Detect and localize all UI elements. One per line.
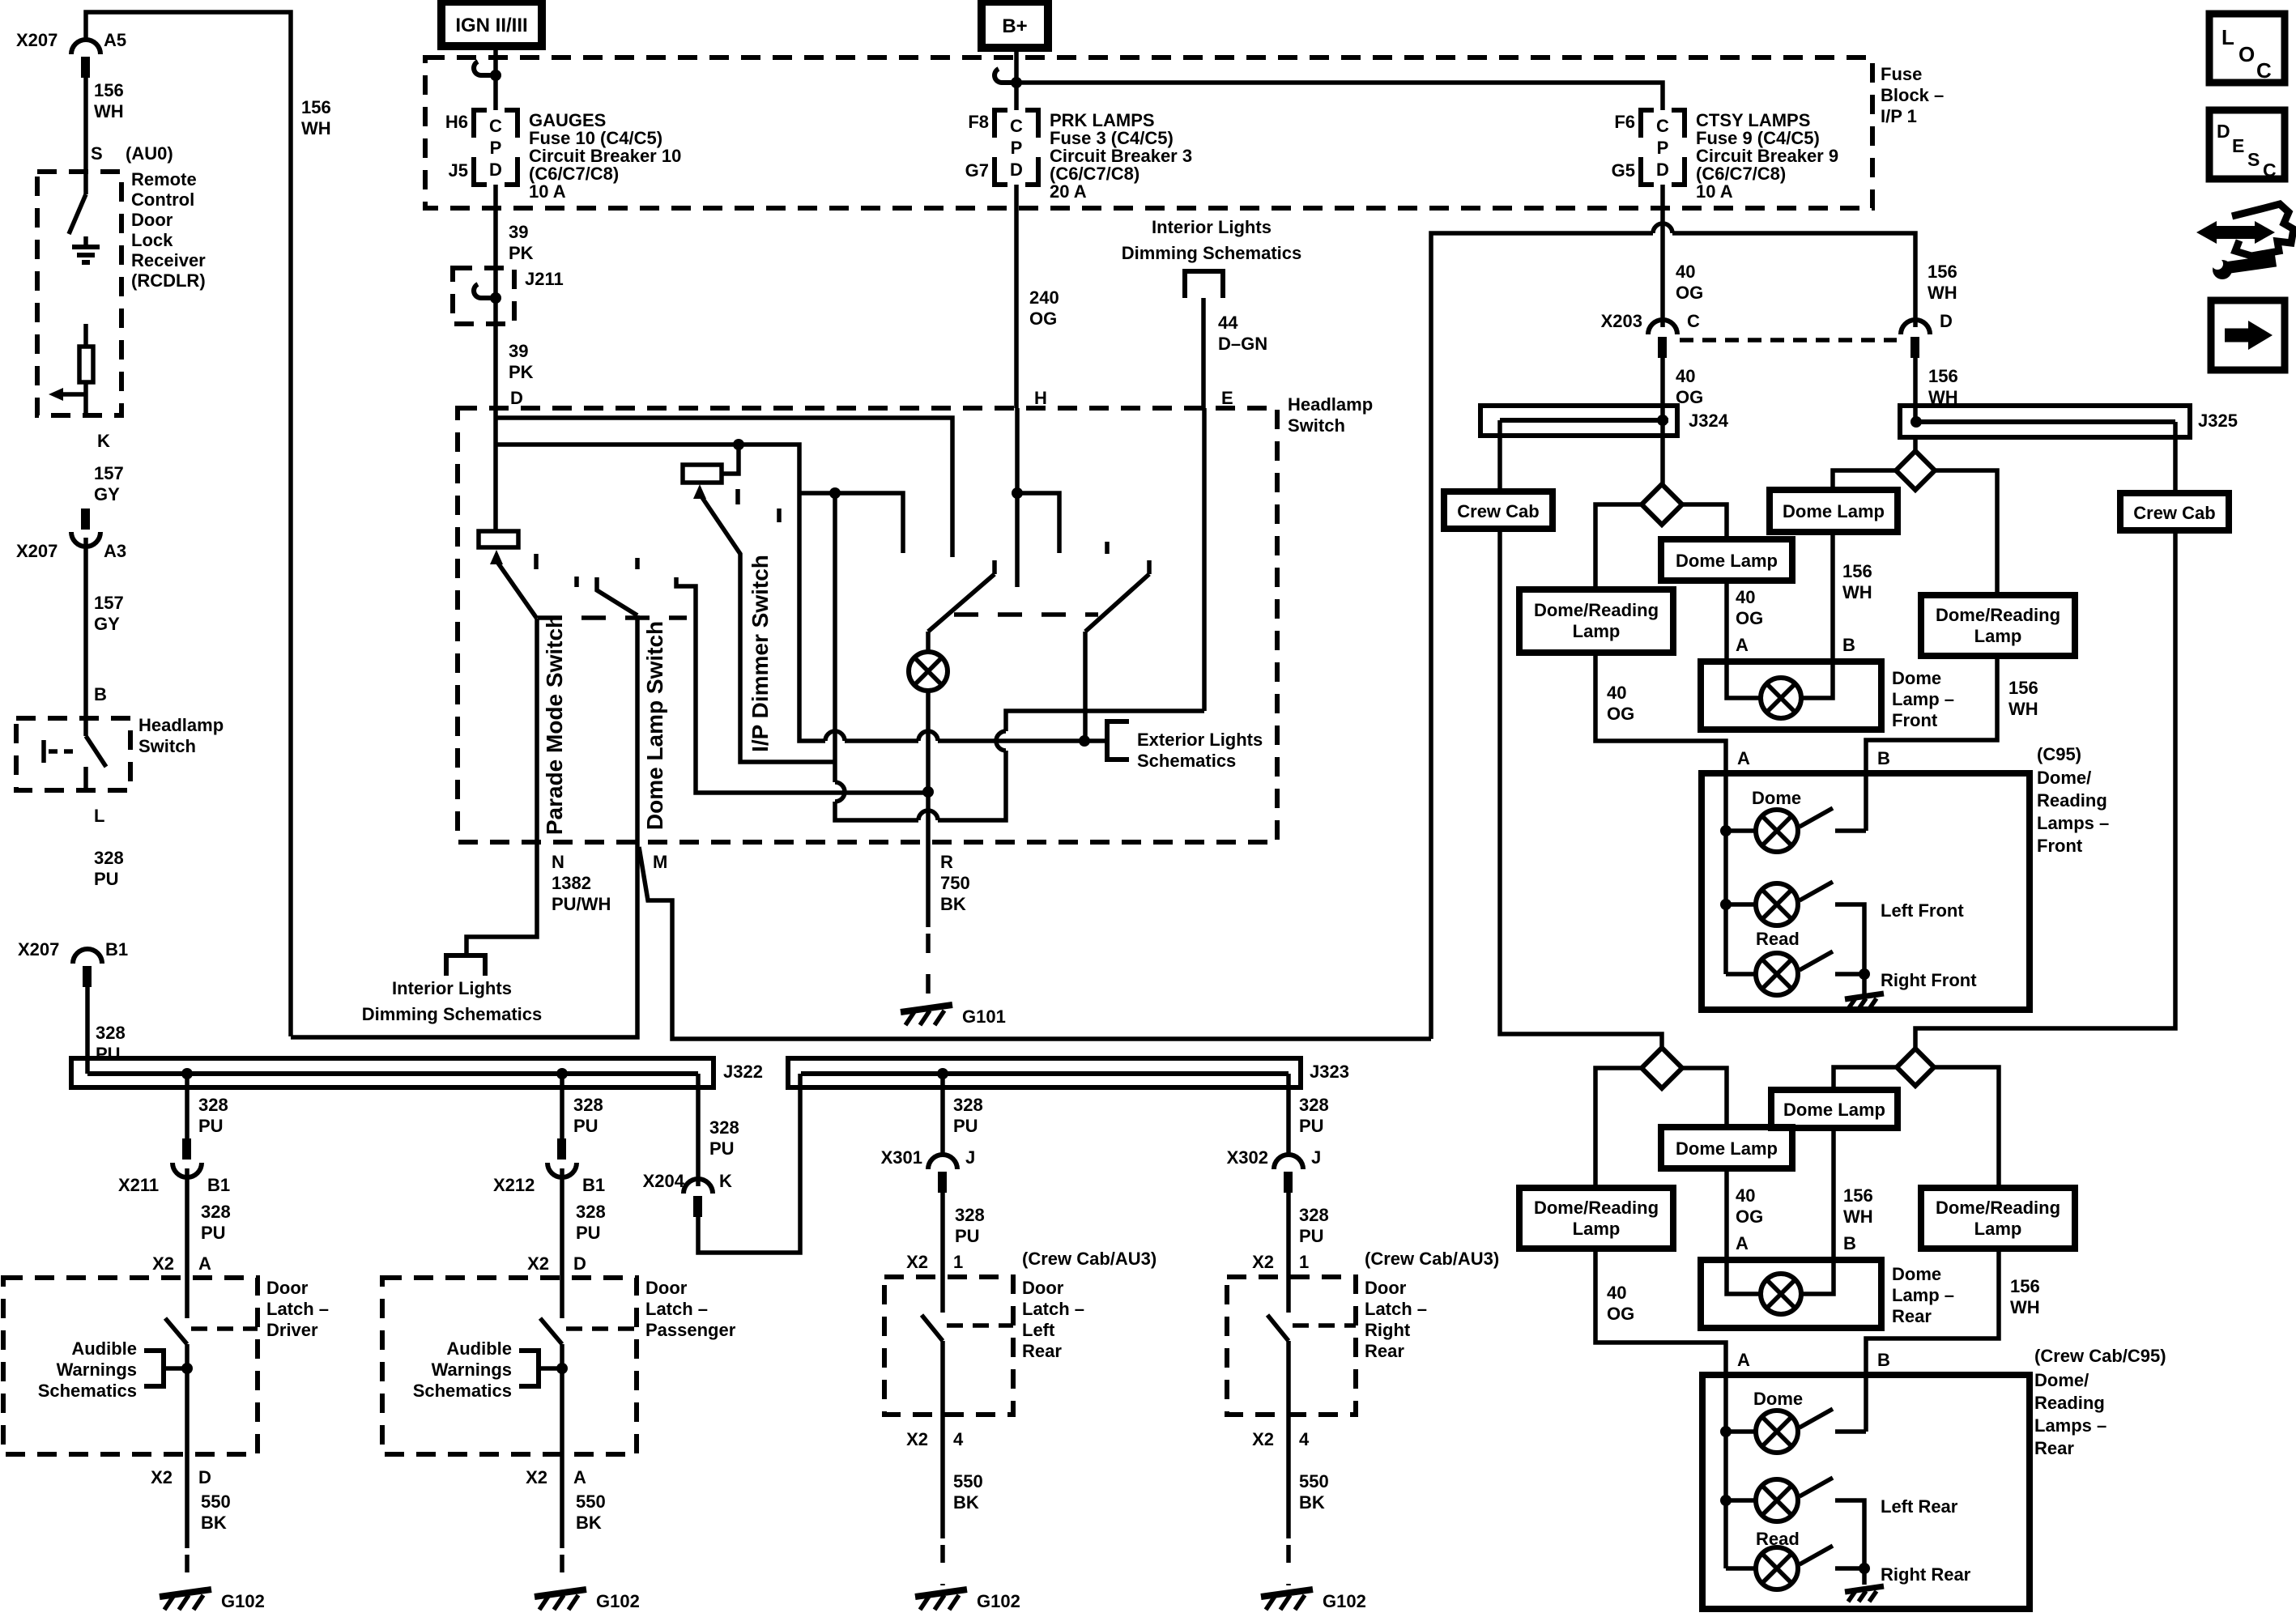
svg-text:Latch –: Latch – [266,1299,329,1319]
svg-text:B: B [1877,1350,1890,1370]
svg-text:PU: PU [198,1116,224,1136]
svg-text:156: 156 [1928,262,1957,282]
svg-text:C: C [489,116,502,136]
switch actuator E mark [41,740,46,763]
svg-text:G101: G101 [962,1006,1006,1027]
svg-text:Dome Lamp: Dome Lamp [1783,1100,1885,1120]
svg-text:E: E [2232,135,2244,156]
svg-text:J323: J323 [1310,1062,1349,1082]
panel lamp symbol [926,632,931,652]
svg-text:J322: J322 [723,1062,763,1082]
ground G102 driver [160,1589,211,1597]
svg-text:X301: X301 [881,1147,922,1168]
svg-text:Lamps –: Lamps – [2034,1415,2106,1436]
wire common bus to exterior lights [799,739,1107,741]
svg-text:550: 550 [201,1491,231,1512]
dome lamp front center box [1661,539,1792,581]
ground G101 [901,1005,952,1012]
svg-text:Warnings: Warnings [432,1360,512,1380]
svg-text:Door: Door [1022,1278,1064,1298]
svg-text:Lamps –: Lamps – [2037,813,2109,833]
svg-text:C: C [1010,116,1023,136]
icon LOC box [2209,14,2285,83]
dome/reading lamps rear module box [1702,1375,2030,1609]
svg-text:Fuse: Fuse [1881,64,1922,84]
wire R to ground [926,842,931,927]
svg-text:Front: Front [2037,836,2083,856]
svg-text:PU: PU [953,1116,978,1136]
svg-text:BK: BK [1299,1492,1325,1513]
svg-text:156: 156 [1928,366,1958,386]
svg-text:WH: WH [1842,582,1872,602]
svg-text:240: 240 [1029,287,1059,308]
icon wrench with part outline [2232,204,2294,256]
splice J211 dashed box [453,268,514,324]
wire B+ to PRK fuse and CTSY fuse [1014,48,1019,110]
svg-text:Right Front: Right Front [1881,970,1977,990]
svg-text:O: O [2238,42,2255,66]
interior lights dimming schematics reference (bottom) [446,955,485,976]
wire 156 WH J325 to front splice right [1913,437,1918,451]
rear module A bus [1723,1375,1728,1568]
svg-text:(Crew Cab/AU3): (Crew Cab/AU3) [1022,1249,1157,1269]
wire 156 WH dome feed from M loop over to X203 D [1431,233,1915,1039]
parade fixed contact tick [534,554,539,569]
svg-text:328: 328 [709,1117,739,1138]
wire H feed inside switch [1015,408,1020,587]
dome/reading lamp rear left box [1519,1188,1673,1249]
svg-text:PU: PU [709,1138,735,1159]
svg-text:X207: X207 [16,541,58,561]
svg-text:D: D [573,1253,586,1274]
svg-text:D: D [1656,160,1669,180]
svg-text:X2: X2 [1252,1429,1274,1449]
svg-text:WH: WH [2010,1297,2040,1317]
svg-text:Rear: Rear [1365,1341,1404,1361]
svg-text:328: 328 [1299,1095,1329,1115]
wire diamond to dome/reading lamp front left [1595,504,1642,589]
svg-text:Schematics: Schematics [1137,751,1236,771]
svg-text:550: 550 [1299,1471,1329,1491]
svg-text:156: 156 [2008,678,2038,698]
door latch Driver dashed box [3,1278,258,1454]
dome lamp front module box [1701,662,1881,730]
svg-text:Lamp: Lamp [1573,1219,1621,1239]
svg-text:WH: WH [301,118,331,138]
splice hook on B+ feed [995,69,1016,83]
svg-text:Dome: Dome [1892,668,1941,688]
svg-text:B: B [1877,748,1890,768]
svg-text:Rear: Rear [1892,1306,1932,1326]
svg-text:44: 44 [1218,313,1238,333]
door jamb switch right rear [1286,1277,1291,1313]
svg-text:Receiver: Receiver [131,250,206,270]
wire 40 OG to module A rear [1595,1249,1726,1375]
fuse PRK lamps C P D element [995,110,1038,185]
wire 328 PU branch driver [185,1074,190,1148]
svg-text:J324: J324 [1689,411,1729,431]
connector X211 pin B1 [182,1138,191,1160]
svg-text:E: E [1221,388,1233,408]
svg-text:H6: H6 [445,112,468,132]
svg-text:40: 40 [1736,587,1755,607]
wire 328 PU branch left rear from J323 dot [940,1074,945,1156]
dimmer contact ticks [735,489,740,504]
door latch right rear dashed box [1227,1277,1356,1415]
svg-text:40: 40 [1736,1185,1755,1206]
dome lamp rear center box [1661,1127,1792,1168]
svg-text:328: 328 [573,1095,603,1115]
svg-text:C: C [1687,311,1700,331]
splice diamond front left [1642,484,1682,525]
wire 44 D-GN to headlamp switch E [1201,298,1206,408]
wire 157 GY to headlamp switch [83,538,88,718]
wire 328 PU branch right rear [1286,1074,1291,1156]
switch in RCDLR [83,172,88,194]
splice diamond front right [1896,451,1935,490]
svg-text:550: 550 [576,1491,606,1512]
svg-text:X212: X212 [493,1175,535,1195]
svg-text:X203: X203 [1601,311,1642,331]
parade wiper arrow and blade [490,550,503,564]
svg-text:10 A: 10 A [1696,181,1733,202]
svg-text:OG: OG [1676,387,1703,407]
svg-text:A: A [1736,635,1749,655]
connector X203 pin C [1648,320,1677,334]
wire diamond to dome lamp rear right [1834,1067,1897,1090]
svg-text:40: 40 [1607,1283,1626,1303]
svg-text:K: K [97,431,110,451]
svg-text:J325: J325 [2198,411,2238,431]
wire bus upper H1 [496,418,952,557]
svg-text:OG: OG [1607,1304,1634,1324]
wire 40 OG A to dome lamp front module [1724,581,1729,662]
svg-text:PU: PU [573,1116,598,1136]
svg-text:Dome: Dome [1752,788,1801,808]
contact chain to panel lamp bus [676,577,928,793]
svg-text:328: 328 [94,848,124,868]
ground G102 passenger [535,1589,586,1597]
svg-text:BK: BK [576,1513,602,1533]
svg-text:Front: Front [1892,710,1938,730]
svg-text:20 A: 20 A [1050,181,1087,202]
svg-text:Rear: Rear [1022,1341,1062,1361]
svg-text:X2: X2 [906,1252,928,1272]
wire 328 PU to J322 [85,987,90,1074]
resistor in RCDLR [83,324,88,347]
read bulb rear left [1726,1498,1756,1503]
svg-text:Left: Left [1022,1320,1055,1340]
svg-text:Dome/Reading: Dome/Reading [1534,1198,1659,1218]
wire 40 OG A to dome lamp rear module [1724,1168,1729,1260]
svg-text:Latch –: Latch – [645,1299,708,1319]
svg-text:X2: X2 [527,1253,549,1274]
svg-text:156: 156 [1843,1185,1873,1206]
svg-text:B1: B1 [207,1175,230,1195]
crew cab right box [2120,493,2229,530]
wire diamond to dome/reading lamp front right [1935,470,1997,595]
wire 40 OG to module A front [1595,653,1726,773]
svg-text:OG: OG [1736,608,1763,628]
dome lamp switch blade [597,577,637,615]
svg-text:Dome/Reading: Dome/Reading [1534,600,1659,620]
svg-text:Door: Door [1365,1278,1407,1298]
wire M dome switch output [291,615,637,1037]
svg-text:BK: BK [953,1492,979,1513]
dimmer resistor [683,465,722,483]
svg-text:Schematics: Schematics [38,1381,137,1401]
svg-text:PU: PU [955,1226,980,1246]
wire J325 to crew cab right [2173,422,2178,493]
svg-text:Read: Read [1756,929,1800,949]
svg-text:Crew Cab: Crew Cab [2133,503,2215,523]
svg-text:PU: PU [94,869,119,889]
svg-text:C: C [2263,160,2277,181]
wire N to interior lights dimming reference [466,842,537,955]
svg-text:I/P Dimmer Switch: I/P Dimmer Switch [748,555,773,752]
svg-text:157: 157 [94,593,124,613]
svg-text:Exterior Lights: Exterior Lights [1137,730,1263,750]
wire 40 OG J324 to front splice [1660,420,1665,484]
svg-text:PU: PU [96,1044,121,1064]
svg-text:Dome Lamp: Dome Lamp [1676,1138,1778,1159]
svg-text:P: P [1011,138,1023,158]
svg-text:PU/WH: PU/WH [552,894,611,914]
svg-text:Latch –: Latch – [1022,1299,1084,1319]
svg-text:X2: X2 [526,1467,547,1487]
svg-text:PU: PU [201,1223,226,1243]
svg-text:328: 328 [576,1202,606,1222]
svg-text:156: 156 [2010,1276,2040,1296]
wire bus H2 [496,445,799,739]
svg-text:156: 156 [301,97,331,117]
svg-text:Latch –: Latch – [1365,1299,1427,1319]
svg-text:1382: 1382 [552,873,591,893]
front module B wire [1864,773,1868,831]
svg-text:4: 4 [1299,1429,1310,1449]
splice dot and stub top center [829,487,841,499]
door latch left rear dashed box [884,1277,1013,1415]
svg-text:X211: X211 [118,1175,159,1195]
svg-text:K: K [719,1171,732,1191]
switch linkage dashed (main) [954,612,1098,617]
svg-text:Right Rear: Right Rear [1881,1564,1971,1585]
svg-text:Door: Door [645,1278,688,1298]
dome lamp front bulb [1727,662,1761,698]
svg-text:Lamp: Lamp [1974,1219,2022,1239]
fixed contact tick between blades [1105,542,1110,554]
connector X203 pin D [1901,320,1930,334]
svg-text:A: A [1737,748,1750,768]
wire 156 WH to module B front [1866,656,1997,773]
svg-text:328: 328 [198,1095,228,1115]
svg-text:Audible: Audible [71,1338,137,1359]
svg-text:Rear: Rear [2034,1438,2074,1458]
svg-text:X302: X302 [1227,1147,1268,1168]
svg-text:J: J [965,1147,975,1168]
headlamp switch dashed box [458,408,1277,842]
svg-text:39: 39 [509,341,528,361]
connector X207 pin A3 [81,509,90,530]
svg-text:550: 550 [953,1471,983,1491]
svg-text:Interior Lights: Interior Lights [1152,217,1272,237]
svg-text:G7: G7 [965,160,989,181]
wiper arrow in RCDLR [63,392,86,397]
svg-text:(C95): (C95) [2037,744,2081,764]
IGN II/III power feed box [441,2,542,46]
svg-text:R: R [940,852,953,872]
svg-text:H: H [1034,388,1047,408]
svg-text:Switch: Switch [1288,415,1345,436]
svg-text:P: P [1657,138,1669,158]
svg-text:B: B [1843,1233,1856,1253]
wire M jog to dome feed [639,847,1431,1039]
dome/reading lamp front right box [1921,595,2075,656]
fuse CTSY lamps C P D element [1641,110,1685,185]
wire 156 WH to RCDLR [83,78,88,172]
svg-text:IGN II/III: IGN II/III [455,15,527,36]
svg-text:A: A [198,1253,211,1274]
svg-text:Dome/Reading: Dome/Reading [1936,1198,2060,1218]
svg-text:(AU0): (AU0) [126,143,173,164]
svg-text:B1: B1 [105,939,128,960]
svg-text:A: A [1737,1350,1750,1370]
wire 156 WH X203 to J325 [1913,358,1918,422]
svg-text:Dome Lamp: Dome Lamp [1676,551,1778,571]
svg-text:OG: OG [1607,704,1634,724]
svg-text:PU: PU [1299,1116,1324,1136]
svg-text:J211: J211 [525,269,564,289]
ground inside rear module [1862,1568,1867,1585]
svg-text:X2: X2 [906,1429,928,1449]
connector X302 pin J [1274,1155,1303,1169]
svg-text:D: D [1010,160,1023,180]
wire X204 jog to J323 [698,1074,800,1253]
svg-text:40: 40 [1676,366,1695,386]
svg-text:B: B [1842,635,1855,655]
svg-text:Dimming Schematics: Dimming Schematics [1122,243,1302,263]
wire D feed inside switch [493,408,498,445]
svg-text:Reading: Reading [2037,790,2107,811]
remote control door lock receiver RCDLR box [37,172,121,415]
svg-text:Lamp: Lamp [1974,626,2022,646]
svg-text:328: 328 [201,1202,231,1222]
ground in RCDLR [83,236,88,247]
svg-text:X207: X207 [18,939,59,960]
svg-text:Lamp: Lamp [1573,621,1621,641]
headlamp switch (battery saver contact) box [16,718,130,790]
svg-text:D: D [510,388,523,408]
door jamb switch left rear [940,1277,945,1313]
wire 328 PU branch passenger [560,1074,564,1148]
wire diamond to dome/reading lamp rear right [1934,1067,1999,1188]
svg-text:Schematics: Schematics [413,1381,512,1401]
splice rail J325 [1900,406,2190,437]
svg-text:Right: Right [1365,1320,1411,1340]
svg-text:L: L [94,806,104,826]
wire 156 WH to module B rear [1866,1249,1999,1375]
audible warnings schematics reference Driver [181,1363,193,1374]
svg-text:G5: G5 [1612,160,1635,181]
wire 39 PK gauges fuse down to J211 [493,185,498,408]
door jamb switch Passenger [560,1278,564,1318]
wire 156 WH B to dome lamp front module [1830,532,1835,662]
svg-text:Headlamp: Headlamp [1288,394,1373,415]
svg-text:D–GN: D–GN [1218,334,1267,354]
svg-text:328: 328 [96,1023,126,1043]
svg-text:Passenger: Passenger [645,1320,736,1340]
svg-text:Block –: Block – [1881,85,1944,105]
svg-text:F6: F6 [1614,112,1635,132]
splice rail J323 [788,1058,1301,1087]
icon arrow box [2211,300,2285,370]
svg-text:Left Rear: Left Rear [1881,1496,1958,1517]
front module A bus [1723,773,1728,974]
svg-text:Lamp –: Lamp – [1892,689,1954,709]
switch linkage dashed (parade/dome) [538,615,687,620]
splice diamond rear right [1897,1049,1934,1086]
svg-text:Switch: Switch [138,736,196,756]
svg-text:J5: J5 [449,160,468,181]
wire dimmer output chain to E [835,493,1204,820]
svg-text:Headlamp: Headlamp [138,715,224,735]
svg-text:X2: X2 [151,1467,173,1487]
connector X204 pin K [684,1179,713,1194]
svg-text:750: 750 [940,873,970,893]
svg-text:PK: PK [509,362,534,382]
svg-text:39: 39 [509,222,528,242]
svg-text:Parade Mode Switch: Parade Mode Switch [542,615,567,835]
svg-text:S: S [91,143,103,164]
svg-text:Dome: Dome [1892,1264,1941,1284]
wire 240 OG PRK fuse down to headlamp switch [1014,185,1019,408]
wire 156 WH B to dome lamp rear module [1831,1128,1836,1260]
wire 40 OG CTSY fuse down to X203 C [1660,185,1665,327]
svg-text:Dome Lamp: Dome Lamp [1783,501,1885,521]
dashed connector line X203 [1680,338,1897,343]
splice rail J324 [1480,406,1677,436]
svg-text:328: 328 [955,1205,985,1225]
svg-text:G102: G102 [977,1591,1020,1611]
splice rail J322 [71,1058,714,1087]
icon DESC box [2209,110,2285,179]
svg-text:PU: PU [1299,1226,1324,1246]
dimmer wiper arrow and blade [693,484,706,499]
svg-text:C: C [2256,58,2272,83]
svg-text:Dome/: Dome/ [2037,768,2091,788]
dome lamp front right box [1770,490,1898,532]
wire diamond to dome lamp front center [1682,504,1727,539]
svg-text:156: 156 [1842,561,1872,581]
svg-text:WH: WH [2008,699,2038,719]
svg-text:D: D [198,1467,211,1487]
svg-text:WH: WH [94,101,124,121]
wire 40 OG X203 to J324 [1660,358,1665,420]
splice diamond rear left [1642,1048,1682,1088]
connector X212 pin B1 [557,1138,566,1160]
svg-text:Audible: Audible [446,1338,512,1359]
svg-text:GY: GY [94,614,120,634]
svg-text:M: M [653,852,667,872]
svg-text:PU: PU [576,1223,601,1243]
svg-text:F8: F8 [968,112,989,132]
wire crew cab right to rear splice [1915,530,2175,1049]
svg-text:157: 157 [94,463,124,483]
svg-text:OG: OG [1736,1206,1763,1227]
svg-text:B1: B1 [582,1175,605,1195]
wire 328 PU to X204 [696,1074,701,1186]
svg-text:I/P 1: I/P 1 [1881,106,1917,126]
